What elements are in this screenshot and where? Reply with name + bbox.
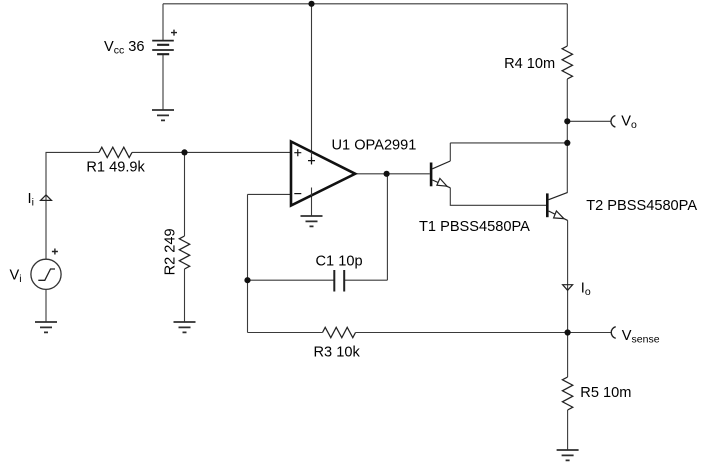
transistor T2 PBSS4580PA [546, 192, 568, 220]
wire R1 to opamp non-inverting input [132, 151, 291, 153]
svg-text:Vcc 36: Vcc 36 [104, 39, 145, 57]
ground at Vi source [35, 322, 57, 332]
ground at battery [152, 110, 174, 120]
wire T1 collector node down to T2 collector [566, 143, 568, 193]
capacitor C1 [334, 270, 344, 292]
resistor R3 [323, 327, 356, 337]
wire Vo node to T1 collector node [566, 121, 568, 143]
wire R3 left lead from inverting node [248, 332, 323, 334]
current arrow Io [563, 285, 573, 291]
wire opamp V- to ground stub [311, 195, 313, 216]
op-amp U1 [291, 142, 355, 206]
svg-text:U1 OPA2991: U1 OPA2991 [332, 138, 417, 154]
node T1 collector junction [564, 140, 570, 146]
op-amp - input marker [294, 193, 301, 195]
battery plus sign [171, 30, 177, 36]
wire R2 to ground [184, 269, 186, 322]
svg-text:R4 10m: R4 10m [504, 56, 555, 72]
wire rail to R4 [566, 4, 568, 46]
resistor R1 [99, 147, 132, 157]
wire inverting input to opamp [248, 193, 292, 195]
wire opamp output to T1 base [355, 173, 430, 175]
Vi plus sign [52, 249, 58, 255]
wire Vo tap [567, 120, 610, 122]
wire opamp V+ supply drop [311, 4, 313, 152]
current arrow Ii [41, 195, 52, 201]
node opamp output / feedback junction [384, 171, 390, 177]
wire R1 node down to R2 [184, 152, 186, 236]
wire Vsense tap [568, 332, 611, 334]
wire battery to ground [162, 54, 164, 110]
wire top supply rail [163, 3, 567, 5]
svg-text:T1 PBSS4580PA: T1 PBSS4580PA [419, 219, 530, 235]
wire feedback drop from output to C1 [386, 174, 388, 280]
svg-text:R5 10m: R5 10m [580, 385, 631, 401]
svg-text:C1 10p: C1 10p [316, 254, 363, 270]
terminal Vo [611, 116, 615, 128]
battery Vcc 36 [152, 41, 174, 55]
node R1-R2 junction [181, 149, 187, 155]
wire inverting input vertical [247, 194, 249, 332]
wire R4 to Vo node [566, 79, 568, 121]
wire C1 left lead [248, 279, 335, 281]
op-amp + input marker [294, 149, 301, 156]
node Vo junction [564, 118, 570, 124]
wire C1 right lead [344, 279, 387, 281]
wire T1 collector run [450, 143, 567, 161]
wire T2 emitter down to Vsense node [567, 220, 569, 332]
source Vi [31, 259, 61, 289]
ground at R5 [557, 450, 579, 460]
node inverting input / C1 junction [244, 277, 250, 283]
terminal Vsense [611, 327, 615, 339]
wire R5 to ground [567, 410, 569, 450]
svg-text:R2 249: R2 249 [162, 228, 178, 275]
svg-text:T2 PBSS4580PA: T2 PBSS4580PA [586, 198, 697, 214]
wire T1 emitter to T2 base [450, 188, 546, 206]
ground at opamp V- [301, 216, 323, 226]
node Vsense junction [565, 329, 571, 335]
wire Vi to ground [45, 289, 47, 322]
svg-text:R1 49.9k: R1 49.9k [86, 160, 145, 176]
op-amp V+ supply marker [308, 157, 315, 164]
resistor R4 [562, 46, 572, 79]
transistor T1 PBSS4580PA [430, 161, 451, 188]
resistor R5 [562, 377, 572, 410]
op-amp V+ pin line inside triangle [311, 152, 313, 165]
ground at R2 [174, 322, 196, 332]
wire Vi up to R1 [46, 152, 99, 259]
resistor R2 [179, 236, 189, 269]
svg-text:R3 10k: R3 10k [314, 345, 361, 361]
wire Vsense node to R5 [567, 333, 569, 378]
wire R3 to Vsense node [356, 332, 568, 334]
op-amp V- pin line inside triangle [311, 188, 313, 197]
node top rail / opamp supply [308, 1, 314, 7]
wire battery top [162, 4, 164, 41]
